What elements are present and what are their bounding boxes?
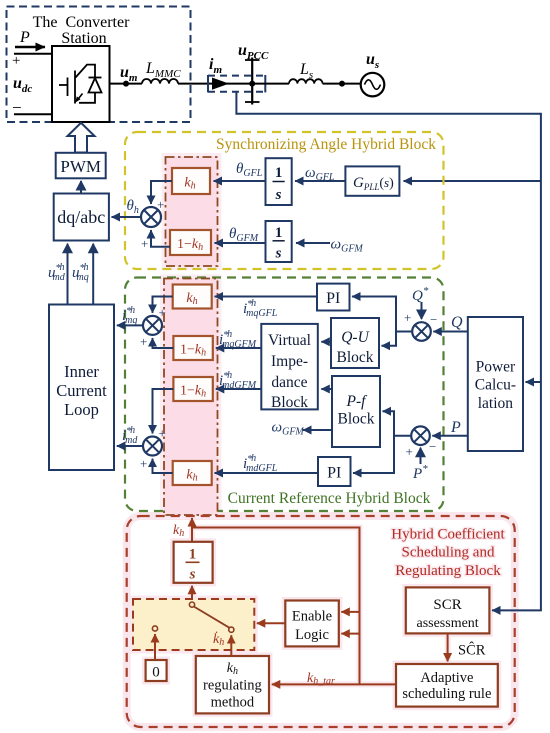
wire kh S1 to sum	[151, 181, 172, 204]
wire sum md to inner loop	[117, 445, 143, 447]
switch selector box	[133, 599, 254, 650]
svg-text:1: 1	[275, 225, 283, 241]
current reference block dashed box	[125, 278, 444, 512]
svg-text:u*hmd: u*hmd	[48, 262, 66, 283]
svg-text:u*hmq: u*hmq	[72, 262, 89, 283]
svg-text:Inner: Inner	[64, 362, 99, 381]
plus terminal label	[12, 53, 20, 69]
enable logic box	[285, 601, 339, 647]
P-f block box	[332, 376, 380, 447]
virtual impedance box	[261, 324, 318, 411]
svg-text:0: 0	[152, 665, 160, 681]
converter station title	[33, 14, 131, 47]
svg-text:Synchronizing Angle Hybrid Blo: Synchronizing Angle Hybrid Block	[216, 136, 436, 153]
svg-text:+: +	[157, 197, 164, 212]
label Q ref	[412, 285, 429, 304]
svg-text:PI: PI	[326, 290, 340, 307]
zero box	[146, 660, 167, 681]
svg-text:P-f: P-f	[346, 393, 369, 410]
svg-text:s: s	[275, 246, 282, 262]
svg-text:Block: Block	[336, 349, 373, 366]
wire Qref to sum	[421, 302, 423, 319]
svg-text:Station: Station	[61, 30, 106, 47]
svg-text:dance: dance	[271, 374, 307, 391]
power calculation box	[468, 317, 523, 451]
IGBT valve symbol	[59, 65, 102, 104]
svg-text:PWM: PWM	[60, 157, 101, 176]
label i_mqGFL	[243, 298, 278, 319]
wire dq/abc to PWM	[80, 181, 82, 194]
wire switch to integrator	[191, 586, 193, 602]
wire regulating method to switch	[230, 635, 232, 656]
AC source u_s	[361, 73, 385, 97]
switch lever	[152, 602, 234, 632]
svg-text:−: −	[429, 439, 436, 454]
inductor L_MMC	[142, 79, 178, 84]
svg-text:+: +	[141, 236, 148, 251]
PWM box	[56, 153, 106, 179]
wire SCR to adaptive	[447, 633, 449, 661]
plus sign mq top	[159, 305, 166, 320]
svg-text:lation: lation	[478, 395, 514, 412]
wire 1-kh C2 to sum mq	[153, 338, 174, 348]
label omega_GFM out	[272, 420, 305, 438]
svg-text:Enable: Enable	[292, 609, 332, 625]
label Q	[451, 314, 463, 331]
label i_mdGFM	[219, 370, 257, 391]
svg-text:+: +	[140, 334, 147, 349]
minus sign Q	[430, 312, 437, 327]
label L_MMC	[145, 60, 181, 80]
wire power calc P to sum	[432, 435, 468, 437]
label theta_h	[127, 198, 139, 216]
wire P-f omega out	[303, 429, 332, 431]
svg-text:method: method	[211, 695, 255, 711]
wire dc negative rail	[14, 113, 52, 115]
svg-text:Block: Block	[337, 411, 374, 428]
converter station dashed box	[7, 7, 191, 123]
minus terminal label	[12, 98, 22, 117]
plus sign Q	[404, 310, 411, 325]
PI box d	[318, 457, 351, 486]
svg-text:1: 1	[189, 547, 197, 563]
label P ref	[412, 463, 428, 482]
wire tap to power calculation	[526, 381, 541, 383]
wire Q sum branch to Q-U	[382, 332, 397, 346]
1-k_h box C3	[173, 377, 212, 401]
label u_m	[120, 64, 138, 84]
svg-text:P: P	[19, 29, 30, 46]
svg-text:P: P	[450, 419, 461, 436]
node dot grid	[339, 81, 345, 87]
label u_mq	[72, 262, 89, 283]
minus sign P	[429, 439, 436, 454]
svg-text:scheduling rule: scheduling rule	[402, 686, 491, 702]
plus sign md top	[159, 426, 166, 441]
PCC bus bar	[245, 58, 260, 105]
svg-text:s: s	[275, 187, 282, 203]
k_h box C4	[173, 461, 212, 485]
wire 1-kh C3 to sum md	[153, 389, 174, 434]
integrator box 1/s GFL	[266, 158, 292, 205]
svg-text:Current: Current	[56, 381, 107, 400]
wire bus to L_s	[252, 83, 289, 85]
wire P sum branch to PI d	[353, 436, 394, 473]
G_PLL box	[345, 166, 399, 195]
svg-text:regulating: regulating	[203, 678, 262, 694]
svg-text:+: +	[406, 444, 413, 459]
P power arrow	[15, 46, 45, 48]
wire u_md up	[67, 244, 69, 305]
wire kh C4 to sum md	[153, 459, 173, 473]
wire Pref to sum	[420, 448, 422, 464]
wire Q-U to VI	[321, 341, 331, 343]
wire 1/s to kh S1	[214, 180, 266, 182]
wire omega_GFM to 1/s	[296, 242, 330, 244]
svg-text:s: s	[189, 567, 196, 583]
label u_md	[48, 262, 66, 283]
svg-text:1: 1	[275, 165, 283, 181]
label SCR hat	[458, 642, 486, 659]
svg-text:assessment: assessment	[416, 616, 478, 631]
regulating block dashed box	[127, 516, 515, 727]
svg-text:+: +	[159, 305, 166, 320]
svg-text:i*hmq: i*hmq	[122, 305, 137, 326]
svg-text:Power: Power	[476, 359, 516, 376]
plus sign md bottom	[140, 456, 147, 471]
wire adaptive to regulating method	[272, 683, 396, 685]
1-k_h box S2	[170, 230, 211, 255]
synchronizing block dashed box	[125, 132, 444, 269]
wire VI to 1-kh C2	[216, 347, 261, 349]
converter box	[52, 46, 110, 122]
label u_dc	[13, 75, 32, 95]
svg-text:The Converter: The Converter	[33, 14, 131, 31]
hybrid box 2 (pink dash-dot)	[164, 279, 218, 516]
plus sign mq bottom	[140, 334, 147, 349]
wire rail to enable logic bottom	[341, 633, 359, 635]
svg-text:Block: Block	[271, 394, 308, 411]
svg-text:Logic: Logic	[295, 627, 329, 643]
svg-text:Q-U: Q-U	[341, 329, 370, 346]
wire L_MMC to bus	[178, 83, 252, 85]
wire measurement feedback to right rail	[236, 92, 541, 610]
svg-text:Hybrid Coefficient: Hybrid Coefficient	[391, 527, 505, 543]
wire power calc Q to sum	[433, 331, 468, 333]
inner current loop box	[49, 305, 114, 471]
wire VI to 1-kh C3	[216, 388, 261, 390]
wire rail to enable logic top	[341, 611, 359, 613]
label k_h out	[173, 523, 184, 539]
svg-text:dq/abc: dq/abc	[57, 207, 105, 227]
k_h box S1	[172, 168, 210, 194]
label i_mq ref	[122, 305, 137, 326]
svg-text:SĈR: SĈR	[458, 642, 486, 659]
label theta_GFL	[236, 161, 263, 179]
svg-text:+: +	[12, 53, 20, 69]
wire P-f to VI	[321, 388, 332, 390]
label k_h_tar	[307, 671, 335, 687]
k_h box C1	[173, 285, 212, 309]
label omega_GFL	[305, 165, 335, 183]
label u_PCC	[238, 42, 269, 62]
label omega_GFM sync	[331, 237, 364, 255]
summing node theta	[141, 207, 161, 227]
svg-text:Virtual: Virtual	[268, 332, 311, 349]
wire tap to G_PLL	[404, 180, 541, 182]
wire k_h to enable logic rail	[192, 528, 360, 685]
k_h regulating method box	[196, 656, 269, 713]
hollow arrow PWM to converter	[68, 123, 95, 153]
svg-text:SCR: SCR	[433, 597, 461, 613]
integrator box 1/s regulator	[174, 542, 213, 583]
svg-text:−: −	[430, 312, 437, 327]
plus sign top	[157, 197, 164, 212]
summing node P	[411, 426, 430, 445]
svg-text:Adaptive: Adaptive	[420, 670, 473, 686]
label L_s	[299, 61, 313, 81]
plus sign bottom	[141, 236, 148, 251]
svg-text:Regulating Block: Regulating Block	[395, 563, 501, 579]
current reference block title	[228, 490, 431, 507]
summing node i_md	[143, 437, 162, 456]
svg-text:Loop: Loop	[64, 400, 99, 419]
inductor L_s	[289, 79, 323, 83]
integrator box 1/s GFM	[266, 221, 292, 262]
label P	[19, 29, 30, 46]
svg-text:PI: PI	[327, 465, 341, 482]
plus sign P	[406, 444, 413, 459]
Q-U block box	[331, 318, 379, 368]
label i_mdGFL	[243, 453, 278, 474]
PI box q	[317, 284, 350, 311]
label i_m	[209, 56, 222, 76]
wire u_mq up	[92, 244, 94, 305]
svg-text:Q: Q	[451, 314, 463, 331]
dq/abc box	[54, 194, 109, 241]
label i_mqGFM	[219, 329, 257, 350]
wire enable logic to switch box	[257, 622, 286, 624]
adaptive scheduling rule box	[396, 664, 498, 707]
measurement dashed box	[208, 75, 265, 92]
wire integrator to hybrid box 2	[191, 518, 193, 542]
svg-text:+: +	[404, 310, 411, 325]
label u_s	[366, 51, 379, 71]
summing node Q	[412, 322, 431, 341]
wire converter output	[110, 83, 143, 85]
wire 1/s to 1-kh S2	[215, 242, 266, 244]
svg-text:Scheduling and: Scheduling and	[402, 545, 495, 561]
svg-text:+: +	[159, 426, 166, 441]
hybrid box 1 (pink dash-dot)	[166, 157, 218, 266]
svg-text:Impe-: Impe-	[271, 353, 308, 370]
wire L_s to source	[323, 83, 361, 85]
wire Q sum to PI and Q-U	[352, 297, 412, 332]
wire GPLL to 1/s	[295, 180, 345, 182]
svg-text:+: +	[140, 456, 147, 471]
SCR assessment box	[406, 587, 490, 633]
label P	[450, 419, 461, 436]
wire zero to switch	[154, 634, 156, 660]
wire P sum to P-f	[383, 411, 412, 435]
regulating block title	[391, 527, 505, 580]
svg-text:Calcu-: Calcu-	[475, 377, 516, 394]
wire sum to dq/abc	[112, 216, 142, 218]
wire PI d to kh C4	[215, 472, 319, 474]
label k_h dot	[213, 630, 224, 648]
wire 1-kh S2 to sum	[151, 230, 170, 247]
synchronizing block title	[216, 136, 436, 153]
label i_md ref	[122, 425, 138, 446]
label theta_GFM	[229, 226, 259, 244]
wire kh C1 to sum mq	[153, 297, 173, 313]
svg-text:Current Reference Hybrid Block: Current Reference Hybrid Block	[228, 490, 431, 507]
i_m current arrow	[212, 78, 229, 90]
summing node i_mq	[143, 316, 162, 335]
node dot u_m	[123, 81, 129, 87]
wire PI q to kh C1	[215, 296, 318, 298]
1-k_h box C2	[173, 336, 212, 360]
wire dc positive rail	[14, 53, 52, 55]
wire sum mq to inner loop	[117, 324, 143, 326]
